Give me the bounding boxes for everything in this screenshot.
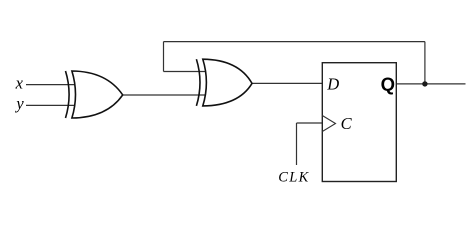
wire feedback top horizontal [164,41,425,43]
clock edge triangle on C input [322,116,335,132]
wire feedback left vertical [163,42,165,72]
wire XOR1 output to XOR2 lower input [123,94,206,96]
wire XOR2 output to D input [252,82,322,84]
xor gate G2 leading arc [196,59,200,106]
wire feedback right vertical [424,42,426,84]
wire Q output [396,83,465,85]
wire CLK horizontal [297,122,323,124]
junction node on Q feedback [422,81,427,86]
xor gate G1 leading arc [66,71,70,118]
wire CLK vertical [296,123,298,165]
svg-text:x: x [15,74,24,93]
wire feedback lower horizontal into XOR2 upper input [164,71,206,73]
svg-text:D: D [326,74,339,93]
svg-text:CLK: CLK [278,170,309,186]
wire x input [26,84,75,86]
svg-text:C: C [341,114,353,133]
D flip-flop U1 box [322,63,396,182]
wire y input [26,104,75,106]
svg-text:y: y [14,94,24,113]
xor gate G2 body [203,59,252,106]
xor gate G1 body [72,71,123,118]
svg-text:Q: Q [381,74,395,95]
